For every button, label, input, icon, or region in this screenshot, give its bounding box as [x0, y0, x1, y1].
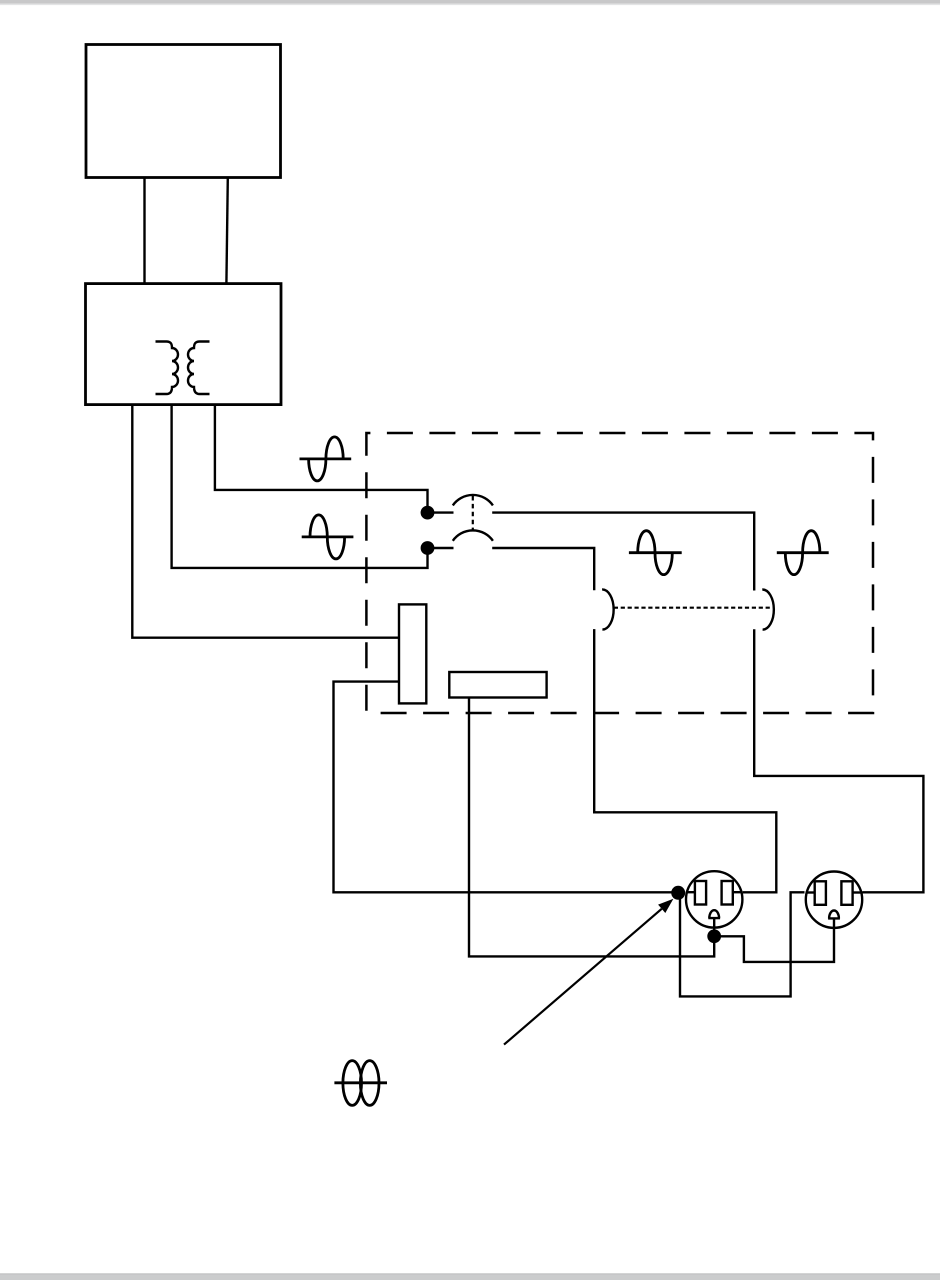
AC waveform symbol 1 [300, 437, 352, 481]
contact K1a arc (upper, normally open) [453, 495, 493, 505]
wire: upper contact left stub [433, 511, 454, 513]
receptacle outlet 2 [806, 872, 862, 928]
component: vertical rectangle (control module) [399, 604, 426, 703]
mechanical linkage: dashed line between K1a and K1b [472, 496, 474, 530]
transformer T1 primary winding (left) [156, 342, 179, 395]
mechanical linkage: dotted line between K2a and K2b [614, 607, 773, 609]
node: outlet 1 hot junction dot [671, 886, 685, 900]
contact K2a arc (left, on vertical wire) [602, 589, 614, 629]
node: ground junction dot [707, 929, 721, 943]
wire: transformer output 1 to rectangle component [132, 405, 399, 638]
wire: transformer output 3 to upper contact node [215, 405, 428, 513]
wire: lower feed to vertical rectangle and to outlet 1 hot node [334, 682, 679, 893]
wire: left link box1 to box2 [143, 178, 145, 284]
annotation arrow pointing to outlet 1 hot node [504, 909, 662, 1045]
double-loop waveform symbol [334, 1081, 387, 1084]
box: transformer enclosure [86, 284, 282, 405]
AC waveform symbol 2 [302, 515, 354, 559]
dashed enclosure (generator set) [366, 433, 873, 713]
wire: upper contact through right contact to outlet 2 right [492, 513, 923, 893]
wire: outlet1 hot node down and over to outlet 2 left [680, 892, 805, 996]
wire: lower contact left stub [433, 547, 454, 549]
wire: lower contact through left contact to outlet 1 right [492, 548, 776, 892]
transformer T1 secondary winding (right) [188, 342, 209, 395]
box: utility source (top-left) [86, 45, 281, 178]
wire: right link box1 to box2 [226, 178, 227, 284]
wire: transformer output 2 to lower contact node [172, 405, 428, 568]
component: horizontal rectangle (ground block) [449, 672, 546, 698]
AC waveform symbol 4 [777, 531, 829, 575]
AC waveform symbol 3 [629, 531, 682, 575]
wire: ground junction to outlet 2 ground [714, 918, 834, 962]
contact K2b arc (right, on vertical wire) [762, 589, 774, 629]
node: lower contact junction dot [421, 541, 435, 555]
wire: ground block to ground junction [469, 698, 714, 957]
contact K1b arc (lower, normally open) [453, 530, 493, 540]
node: upper contact junction dot [421, 506, 435, 520]
receptacle outlet 1 [686, 871, 742, 936]
